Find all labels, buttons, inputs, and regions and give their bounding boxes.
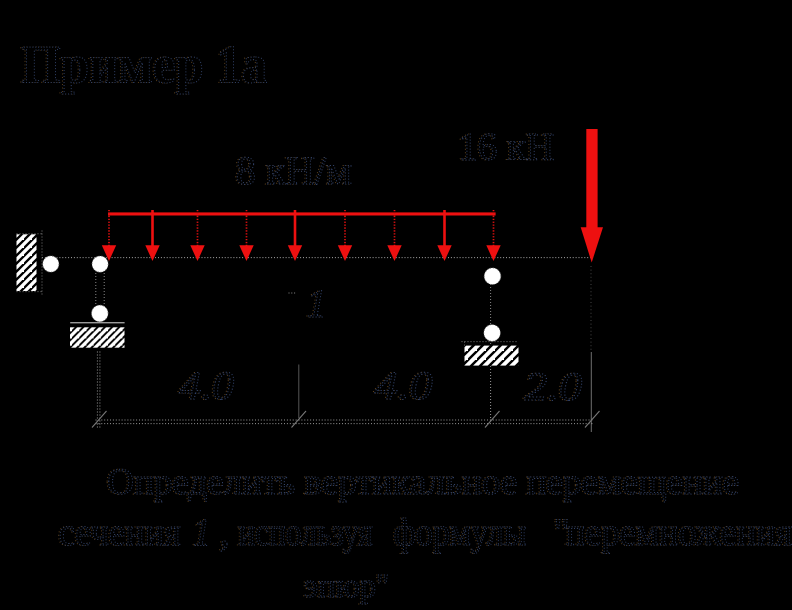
hinge circle C3 [92, 305, 109, 322]
section mark tick [289, 292, 297, 294]
dimension leader line below right support (dotted) [490, 366, 492, 420]
task text line 3 (ghost) [303, 568, 390, 605]
point load arrow 16 kN [581, 129, 603, 263]
svg-text:Пример 1а: Пример 1а [21, 35, 267, 95]
dimension leader line below point load (dotted above, solid below) [590, 266, 592, 352]
dimension tick slash at x=592 [585, 411, 600, 428]
svg-text:1: 1 [307, 281, 327, 326]
dimension label "2.0" (ghost italic) [523, 364, 583, 409]
task text line 2 (ghost) [57, 511, 792, 554]
dimension tick slash at x=492 [485, 411, 500, 428]
svg-text:1: 1 [193, 511, 211, 554]
svg-text:16 кН: 16 кН [458, 126, 554, 169]
svg-text:эпюр": эпюр" [304, 568, 389, 605]
distributed load label "8 кН/м" (ghost outline text) [234, 148, 352, 193]
hinge circle C4 [484, 268, 501, 285]
svg-text:Определить вертикальное переме: Определить вертикальное перемещение [107, 462, 739, 503]
load arrow 9 (dotted stem) [486, 210, 500, 261]
dimension tick slash at x=96 [92, 411, 107, 428]
distributed load top line [108, 212, 496, 215]
fixed wall support: hatch [17, 234, 37, 291]
svg-text:8 кН/м: 8 кН/м [236, 148, 352, 193]
load arrow 3 (dotted stem) [190, 210, 204, 261]
dimension tick slash at x=298.5 [292, 411, 307, 428]
roller support right: hatch [465, 346, 519, 366]
point load label "16 кН" (ghost outline text) [457, 126, 555, 169]
hinge circle C1 [43, 256, 59, 272]
load arrow 1 (dotted stem) [102, 210, 116, 261]
load arrow 6 (dotted stem) [338, 210, 352, 261]
roller support left: hatch [70, 327, 125, 347]
dimension chain line (double dotted) [96, 420, 594, 424]
svg-text:2.0: 2.0 [524, 364, 582, 409]
svg-text:,: , [220, 511, 230, 554]
roller support left: top plate line [70, 322, 124, 323]
title "Пример 1а" (ghost outline text) [20, 35, 268, 95]
dimension leader line below left support (double dotted) [97, 352, 100, 430]
dimension label "4.0" first span (ghost italic) [178, 363, 235, 408]
load arrow 8 (solid stem) [437, 210, 451, 261]
roller support right: dotted plate outline [462, 341, 519, 343]
link bar dotted edges (left pendulum C2-C3) [96, 270, 104, 307]
svg-text:перемножения: перемножения [566, 511, 792, 554]
task text line 1 (ghost) [106, 462, 740, 503]
svg-text:сечения: сечения [59, 511, 181, 554]
hinge circle C5 [484, 325, 501, 342]
wall support dotted outline [17, 231, 43, 296]
svg-text:используя: используя [238, 511, 373, 554]
load arrow 7 (dotted stem) [387, 210, 401, 261]
beam axis dotted line [42, 257, 593, 259]
load arrow 5 (solid stem) [288, 210, 302, 261]
load arrow 4 (dotted stem) [239, 210, 253, 261]
hinge circle C2 [92, 256, 108, 272]
dimension label "4.0" second span (ghost italic) [373, 363, 433, 408]
svg-text:4.0: 4.0 [375, 363, 433, 408]
load arrow 2 (solid stem) [145, 210, 159, 261]
section label "1" (ghost italic) [305, 281, 327, 326]
dimension leader line at section 1 [298, 365, 300, 419]
svg-text:формулы: формулы [394, 511, 527, 554]
link bar dotted edge (right pendulum C4-C5) [490, 284, 492, 326]
svg-text:4.0: 4.0 [179, 363, 234, 408]
